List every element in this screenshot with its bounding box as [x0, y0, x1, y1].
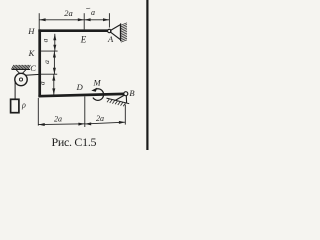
tick at K [41, 50, 58, 52]
svg-text:2a: 2a [54, 115, 62, 124]
support B pin [124, 92, 128, 96]
moment M arc [93, 89, 104, 101]
dimension 2a bottom right [85, 114, 126, 125]
wire top dimension extension line A [108, 13, 110, 27]
string from pulley to weight [14, 81, 16, 99]
wire bottom extension line left corner [37, 98, 39, 126]
pulley wheel [15, 73, 27, 85]
wire top dimension extension line E [83, 13, 85, 29]
svg-text:a: a [91, 8, 95, 17]
string from C to pulley [26, 73, 40, 76]
svg-text:H: H [27, 26, 35, 36]
wire bottom extension line D [84, 96, 86, 127]
dimension a (C-bottom) [37, 74, 55, 95]
support B rod triangle [115, 95, 126, 103]
support B inclined ground line [107, 98, 130, 104]
support A wall hatching [121, 23, 127, 42]
svg-text:Рис. С1.5: Рис. С1.5 [52, 135, 97, 149]
moment M arrowhead [91, 88, 97, 92]
page edge line [146, 0, 148, 150]
dimension a (H-K) [41, 34, 57, 51]
dimension a (K-C) [42, 51, 56, 74]
support A wall line [120, 23, 122, 41]
ceiling hatching [12, 65, 31, 69]
pulley bracket [16, 70, 26, 75]
svg-text:A: A [107, 34, 114, 44]
beam HA top horizontal bar [38, 29, 109, 32]
svg-text:2a: 2a [96, 114, 104, 123]
column HC left vertical bar [38, 29, 41, 96]
svg-text:D: D [76, 82, 84, 92]
support B ground hatching [107, 99, 126, 106]
dimension 2a bottom left [38, 115, 85, 126]
wire top dimension extension line H [38, 13, 40, 29]
svg-text:C: C [30, 63, 36, 73]
tick at C [41, 73, 57, 75]
svg-text:2a: 2a [64, 8, 73, 18]
svg-text:a: a [37, 81, 46, 85]
support A triangle [111, 25, 121, 40]
beam bottom horizontal bar [38, 94, 124, 96]
svg-text:ρ: ρ [21, 100, 26, 109]
dimension 2a top [39, 8, 84, 21]
svg-text:a: a [41, 38, 50, 42]
svg-text:B: B [129, 88, 134, 98]
wire bottom extension line B [124, 105, 126, 125]
pulley hub [19, 78, 22, 81]
svg-text:a: a [42, 60, 51, 64]
dimension a top [84, 8, 109, 21]
svg-text:E: E [80, 35, 87, 45]
weight P box [11, 99, 19, 112]
svg-text:M: M [93, 78, 102, 88]
support A pin [108, 29, 111, 32]
ceiling line above pulley [12, 68, 31, 70]
